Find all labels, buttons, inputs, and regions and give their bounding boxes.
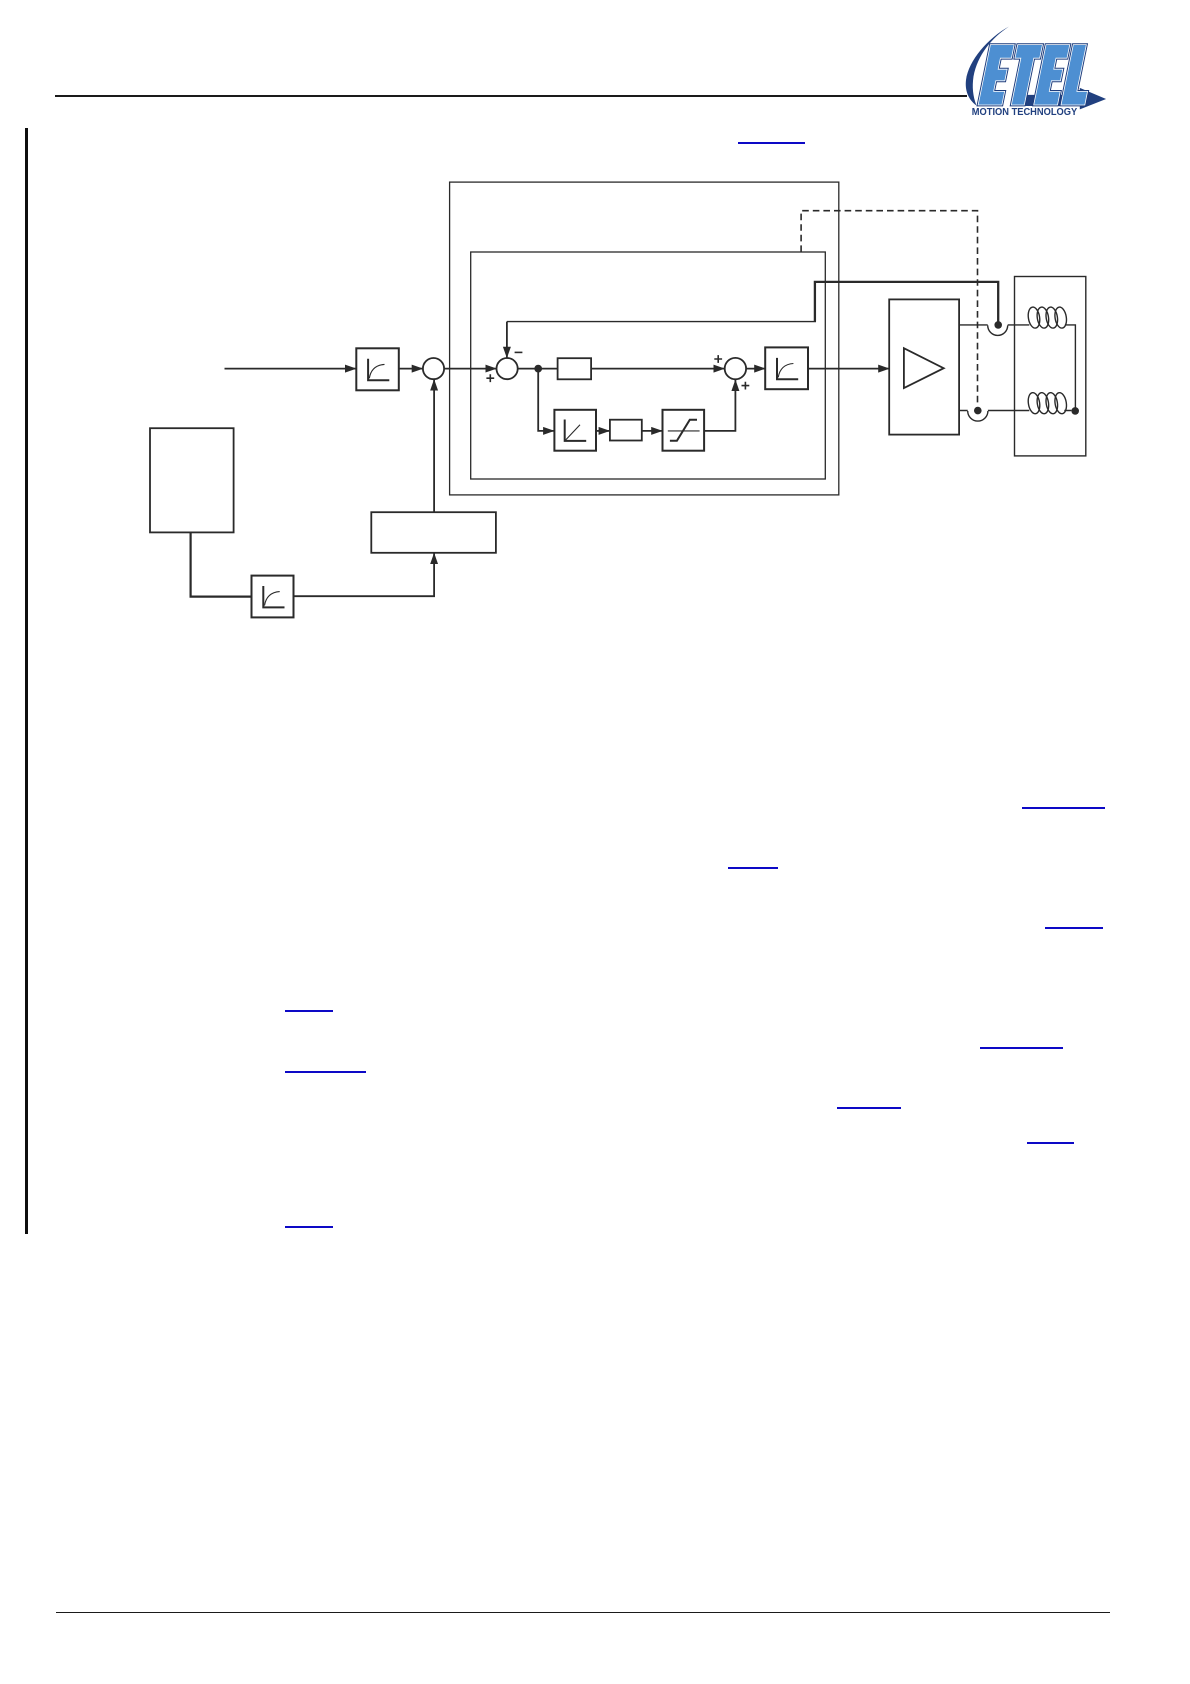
- svg-text:MOTION TECHNOLOGY: MOTION TECHNOLOGY: [972, 107, 1078, 118]
